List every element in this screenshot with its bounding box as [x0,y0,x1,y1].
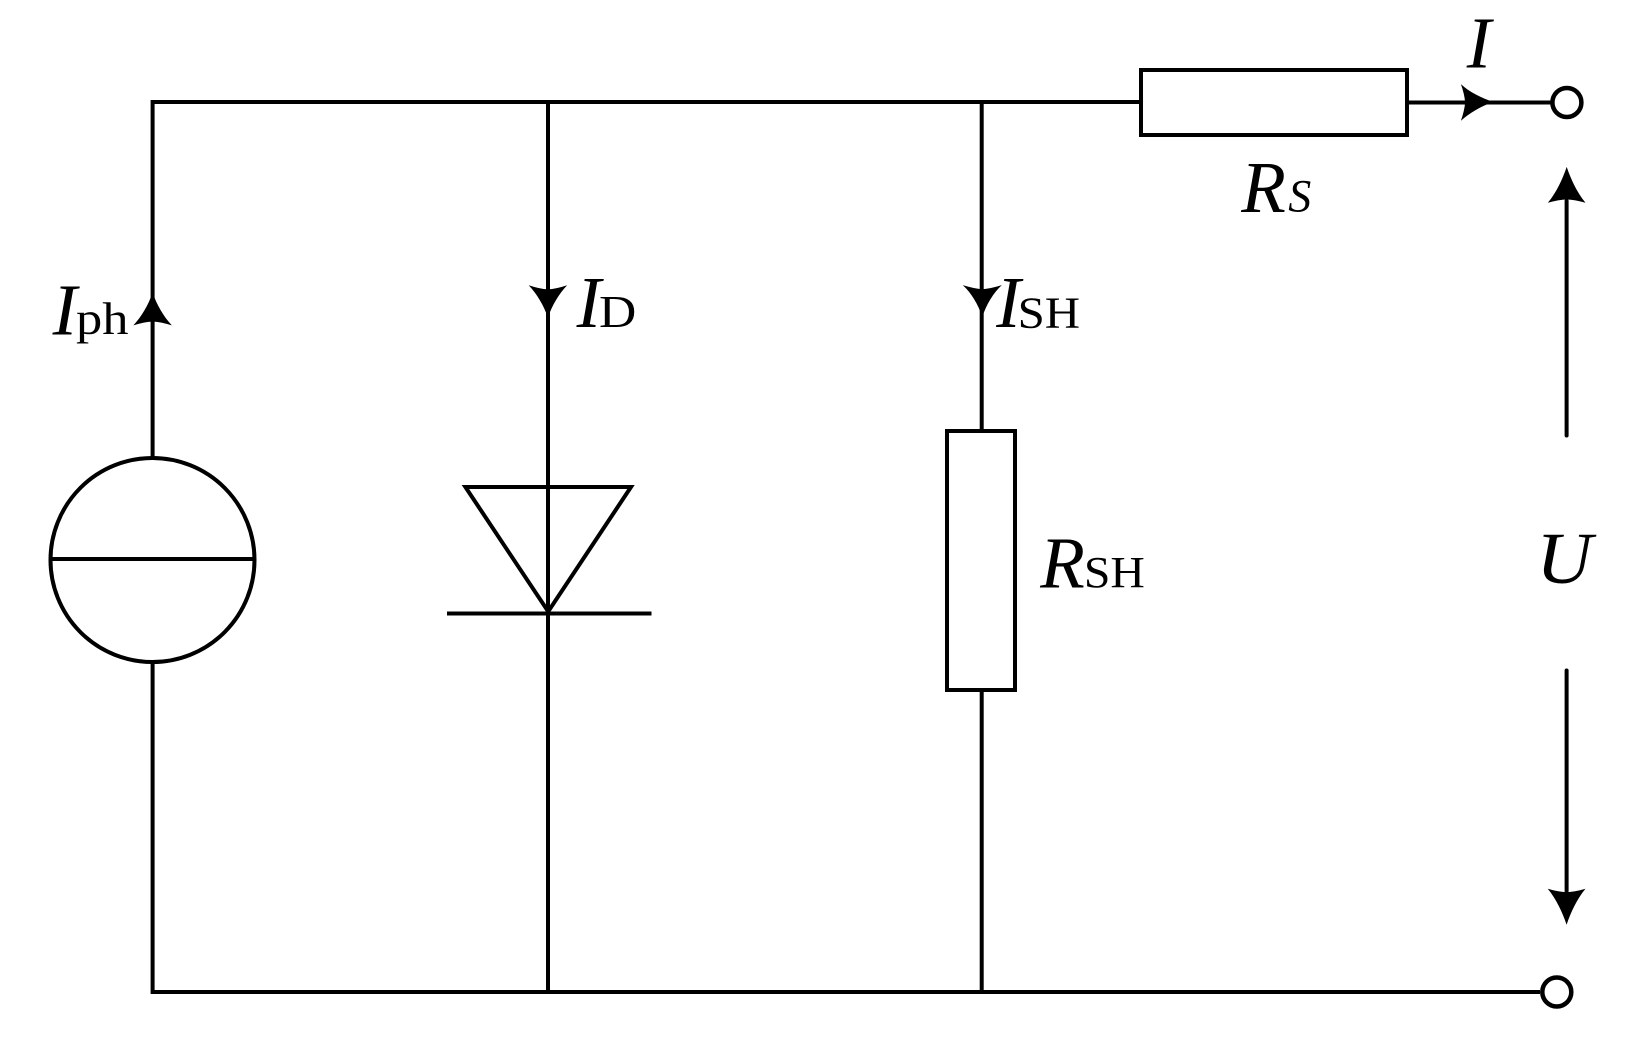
svg-text:D: D [599,286,636,337]
wire left branch upper [151,100,155,458]
wire top bus [153,100,1141,104]
I_SH current arrow [963,285,1002,317]
svg-text:ph: ph [76,293,129,344]
wire shunt branch lower [980,690,984,994]
U voltage arrow up [1548,167,1586,436]
I current arrow [1461,84,1494,121]
wire bottom bus [153,990,1540,994]
I_ph current arrow [133,293,172,326]
svg-text:R: R [1039,522,1085,603]
current source I_ph [51,458,255,662]
diode D1 triangle [465,487,631,612]
resistor R_S body [1141,70,1407,135]
terminal bottom [1542,978,1571,1007]
I_D current arrow [529,285,568,318]
U voltage arrow down [1548,671,1586,925]
svg-text:I: I [1466,3,1495,84]
wire shunt branch upper [980,100,984,431]
terminal top [1552,88,1581,117]
svg-text:SH: SH [1084,547,1145,597]
svg-text:SH: SH [1018,287,1081,337]
diode D1 cathode bar [447,612,652,616]
svg-text:S: S [1288,170,1311,222]
resistor R_SH body [947,431,1015,690]
wire output top [1407,101,1552,105]
wire left branch lower [151,662,155,994]
svg-text:U: U [1536,518,1597,599]
wire diode branch [546,100,550,994]
svg-text:R: R [1240,147,1286,228]
